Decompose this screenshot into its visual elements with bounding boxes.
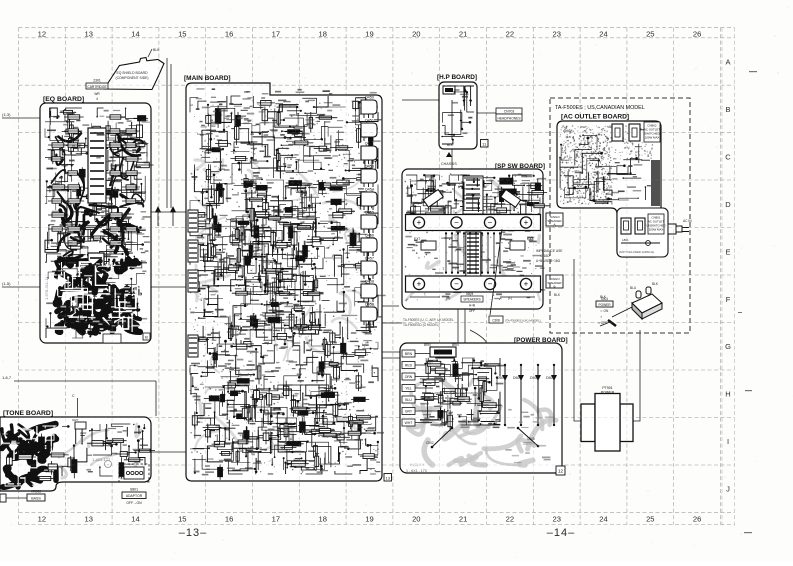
svg-text:20: 20 [412,515,420,524]
svg-text:WHT: WHT [405,421,413,425]
svg-text:25: 25 [646,515,654,524]
svg-text:A+B: A+B [469,304,475,308]
svg-text:19: 19 [365,29,373,38]
svg-text:12: 12 [558,469,564,474]
svg-text:A: A [725,58,730,67]
svg-text:25: 25 [646,29,654,38]
svg-text:AC IN: AC IN [683,219,692,223]
svg-text:VR802: VR802 [31,490,41,494]
svg-text:BLU: BLU [630,286,637,290]
svg-text:SPEAKERS: SPEAKERS [463,298,480,302]
svg-text:15: 15 [178,29,186,38]
svg-text:Q450: Q450 [365,96,374,100]
svg-text:B: B [145,335,148,340]
svg-text:OFF: OFF [469,309,475,313]
svg-text:−: − [488,218,493,227]
svg-text:1 - 6X1 - 173: 1 - 6X1 - 173 [406,469,427,473]
svg-text:TA-F500ES ; US,CANADIAN MODEL: TA-F500ES ; US,CANADIAN MODEL [555,105,645,111]
svg-text:B: B [725,105,730,114]
svg-text:13: 13 [385,476,390,481]
svg-text:16: 16 [225,29,233,38]
svg-text:15: 15 [178,515,186,524]
svg-text:17: 17 [272,29,280,38]
svg-text:+: + [524,218,529,227]
svg-text:13: 13 [84,515,92,524]
svg-text:PT901: PT901 [602,386,613,390]
svg-text:(1-3): (1-3) [2,112,11,117]
svg-text:24: 24 [599,29,607,38]
svg-text:TA-F500ES (US, CANADIAN MODEL): TA-F500ES (US, CANADIAN MODEL) [430,391,481,395]
svg-text:RED: RED [405,364,413,368]
svg-text:[MAIN BOARD]: [MAIN BOARD] [184,75,231,82]
svg-text:17: 17 [272,515,280,524]
svg-text:4~16Ω: 4~16Ω [540,254,550,258]
svg-text:(TA-F500ES (UK) MODEL): (TA-F500ES (UK) MODEL) [505,319,541,323]
svg-text:100W MAX: 100W MAX [645,136,660,140]
svg-text:13: 13 [84,29,92,38]
svg-text:F: F [726,295,731,304]
svg-text:CHASSIS: CHASSIS [441,162,457,166]
svg-text:14: 14 [131,515,139,524]
svg-text:–14–: –14– [547,527,575,539]
svg-text:ORN: ORN [405,375,413,379]
svg-text:WHT: WHT [580,125,587,129]
svg-text:A: A [553,223,555,227]
svg-text:–13–: –13– [179,527,207,539]
svg-text:IMPEDANCE USE: IMPEDANCE USE [536,249,562,253]
svg-text:D501: D501 [513,376,521,380]
svg-text:19: 19 [365,515,373,524]
svg-text:(B): (B) [446,296,450,300]
svg-text:CARTRIDGE: CARTRIDGE [87,85,107,89]
svg-text:E: E [725,247,730,256]
svg-text:(1-5): (1-5) [2,281,11,286]
svg-text:OFF→ON: OFF→ON [126,501,142,505]
svg-text:POWER: POWER [601,391,615,395]
svg-text:4: 4 [96,97,98,101]
svg-text:D502: D502 [530,376,538,380]
svg-text:21: 21 [459,515,467,524]
svg-text:C502: C502 [426,441,434,445]
svg-text:HEADPHONES: HEADPHONES [497,117,521,121]
svg-text:+: + [524,280,529,289]
svg-text:FWD: FWD [563,129,571,133]
svg-text:1-678-311-11: 1-678-311-11 [44,276,49,300]
svg-text:EXT: EXT [527,237,533,241]
svg-text:H: H [725,390,730,399]
svg-text:□ OFF: □ OFF [598,321,607,325]
svg-text:Q452: Q452 [365,142,374,146]
svg-text:D504: D504 [497,376,505,380]
svg-text:26: 26 [693,29,701,38]
svg-text:1-6,7: 1-6,7 [2,375,12,380]
svg-text:YEL: YEL [405,387,412,391]
svg-text:TA-F500ESD (G MODEL): TA-F500ESD (G MODEL) [403,323,439,327]
svg-text:CN703: CN703 [504,110,515,114]
svg-text:ADAPTOR: ADAPTOR [126,494,143,498]
svg-text:22: 22 [506,515,514,524]
svg-text:Q453: Q453 [365,165,374,169]
svg-text:GRY: GRY [405,410,413,414]
svg-text:Q451: Q451 [365,119,374,123]
svg-text:BRN: BRN [424,343,431,347]
svg-text:−: − [454,280,459,289]
svg-text:⇧: ⇧ [600,315,603,319]
svg-text:18: 18 [318,29,326,38]
svg-text:16: 16 [225,515,233,524]
svg-text:TA-F500ES (U, C, AEP, UK MODE: TA-F500ES (U, C, AEP, UK MODEL [403,318,454,322]
svg-text:(L): (L) [508,296,512,300]
svg-text:24: 24 [599,515,607,524]
svg-text:26: 26 [693,515,701,524]
svg-text:Q458: Q458 [365,280,374,284]
svg-text:D: D [725,200,731,209]
svg-text:BRN: BRN [452,343,459,347]
svg-text:S901: S901 [601,297,609,301]
svg-text:BLK: BLK [447,143,454,147]
svg-text:I: I [727,437,729,446]
svg-text:B: B [553,285,555,289]
svg-text:Q455: Q455 [365,211,374,215]
svg-text:BLU: BLU [405,398,412,402]
svg-text:12: 12 [38,29,46,38]
svg-text:+: + [417,280,422,289]
svg-text:21: 21 [459,29,467,38]
svg-text:14: 14 [131,29,139,38]
svg-text:23: 23 [552,515,560,524]
svg-text:WR: WR [94,92,100,96]
svg-text:A+B USE 8~16Ω: A+B USE 8~16Ω [536,259,561,263]
svg-text:GRY: GRY [72,418,78,422]
svg-text:C: C [725,152,731,161]
svg-text:5801: 5801 [134,460,141,464]
svg-text:BASS: BASS [31,497,41,501]
svg-text:(COMPONENT SIDE): (COMPONENT SIDE) [115,76,148,80]
svg-text:2301: 2301 [93,79,101,83]
svg-text:G: G [725,342,731,351]
svg-text:AEP MODEL): AEP MODEL) [438,396,456,400]
svg-text:[EQ BOARD]: [EQ BOARD] [43,96,84,103]
svg-text:−: − [454,218,459,227]
svg-text:C308: C308 [492,319,500,323]
svg-text:−: − [488,280,493,289]
svg-text:100W MAX: 100W MAX [649,228,664,232]
svg-text:18: 18 [318,515,326,524]
svg-text:Q456: Q456 [365,234,374,238]
svg-text:BLK: BLK [554,293,561,297]
svg-text:J: J [726,485,730,494]
svg-text:(NOT INCLUDED JAPAN·E): (NOT INCLUDED JAPAN·E) [619,250,654,254]
svg-text:[TONE BOARD]: [TONE BOARD] [3,410,53,417]
svg-text:L801: L801 [622,238,629,242]
svg-text:Q454: Q454 [365,188,374,192]
svg-text:+: + [417,218,422,227]
svg-text:EQ SHIELD BOARD: EQ SHIELD BOARD [116,71,148,75]
svg-text:POWER: POWER [598,303,611,307]
svg-text:20: 20 [412,29,420,38]
svg-text:[AC OUTLET BOARD]: [AC OUTLET BOARD] [561,114,629,121]
svg-text:Q457: Q457 [365,257,374,261]
svg-text:Q459: Q459 [365,303,374,307]
svg-text:[H.P BOARD]: [H.P BOARD] [437,74,477,81]
svg-text:D503: D503 [546,376,554,380]
svg-text:5601: 5601 [466,292,473,296]
svg-text:⇨ ON: ⇨ ON [600,309,609,313]
svg-text:C505: C505 [527,437,535,441]
svg-text:BLK: BLK [652,282,659,286]
svg-text:BRN: BRN [405,352,413,356]
svg-text:23: 23 [552,29,560,38]
svg-text:22: 22 [506,29,514,38]
svg-text:12: 12 [38,515,46,524]
svg-text:S801: S801 [130,488,138,492]
